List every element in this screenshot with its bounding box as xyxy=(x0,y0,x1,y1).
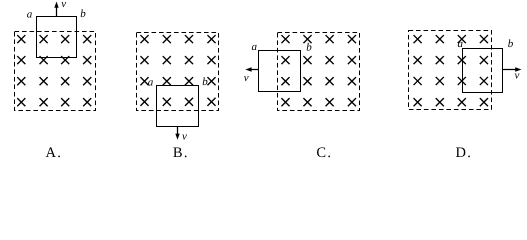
svg-text:v: v xyxy=(182,131,187,143)
panel D conducting loop ab xyxy=(463,49,503,93)
panel A conducting loop ab xyxy=(37,17,77,58)
svg-text:a: a xyxy=(27,8,33,20)
panel B conducting loop ab xyxy=(157,86,199,127)
panel C conducting loop ab xyxy=(259,51,301,92)
panel C flux x-marks (4x4 grid, B into page) xyxy=(281,35,356,106)
svg-text:a: a xyxy=(251,41,257,53)
svg-text:v: v xyxy=(514,70,519,82)
panel C field region (dashed boundary) xyxy=(278,33,360,111)
svg-text:B.: B. xyxy=(173,145,189,161)
svg-text:b: b xyxy=(202,76,208,88)
panel B velocity arrow v (downward) xyxy=(175,127,179,140)
panel D field region (dashed boundary) xyxy=(409,31,492,110)
svg-text:b: b xyxy=(508,38,514,50)
panel D velocity arrow v (rightward) xyxy=(503,67,522,71)
panel C velocity arrow v (leftward) xyxy=(245,67,258,71)
svg-text:C.: C. xyxy=(316,145,332,161)
svg-text:a: a xyxy=(148,77,154,89)
svg-text:v: v xyxy=(244,72,249,84)
panel B field region (dashed boundary) xyxy=(137,33,219,111)
svg-text:D.: D. xyxy=(455,145,472,161)
panel B flux x-marks (4x4 grid, B into page) xyxy=(140,35,215,106)
svg-text:b: b xyxy=(306,41,312,53)
panel A velocity arrow v (upward) xyxy=(54,2,58,17)
panel A flux x-marks (4x4 grid, B into page) xyxy=(17,35,91,106)
panel D flux x-marks (4x4 grid, B into page) xyxy=(414,35,488,106)
svg-text:A.: A. xyxy=(45,145,62,161)
svg-text:v: v xyxy=(61,0,66,10)
panel A field region (dashed boundary) xyxy=(15,32,96,111)
svg-text:a: a xyxy=(458,38,464,50)
svg-text:b: b xyxy=(80,8,86,20)
